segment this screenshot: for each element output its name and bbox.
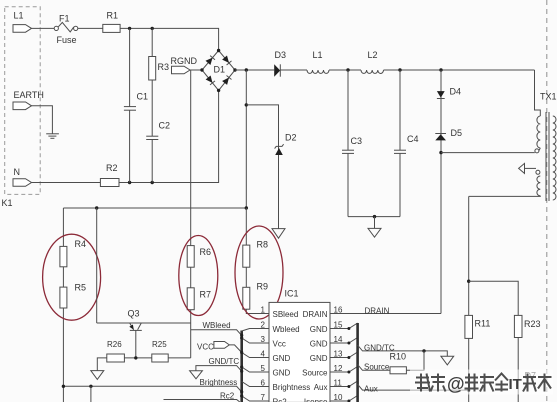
connector pin L1 (13, 25, 32, 33)
svg-text:Aux: Aux (364, 385, 378, 394)
svg-text:C3: C3 (351, 136, 363, 146)
wire C3 bottom (347, 153, 349, 216)
ground (open triangle, GND/TC right) (441, 356, 454, 365)
svg-text:Vcc: Vcc (273, 339, 286, 348)
node junction top wire / R3 (151, 27, 154, 30)
wire ground stub (374, 217, 376, 229)
wire GND/TC net (right) (358, 345, 448, 356)
resistor R2 (100, 179, 119, 187)
wire C2 bottom (151, 140, 153, 183)
svg-text:DRAIN: DRAIN (365, 307, 390, 316)
svg-text:TX1: TX1 (540, 92, 557, 102)
node junction rail / D4 column (439, 68, 442, 71)
wire R26 to R25 (124, 357, 151, 359)
svg-text:D3: D3 (275, 50, 287, 60)
svg-text:VCC: VCC (197, 343, 214, 352)
wire C1 bottom (129, 110, 131, 182)
wire L2 to transformer (384, 69, 535, 71)
capacitor C3 (342, 150, 354, 153)
wire R26 to ground (97, 358, 107, 371)
node arrow (off-sheet, D2 cathode return) (272, 229, 285, 239)
connector pin VCC (214, 342, 229, 349)
svg-text:GND: GND (273, 368, 291, 377)
svg-text:GND/TC: GND/TC (209, 357, 240, 366)
wire bus tap to pin 4 (242, 353, 269, 358)
svg-text:3: 3 (261, 335, 266, 344)
node junction Q3 base stem (134, 356, 137, 359)
wire pin 14 stub (330, 338, 358, 344)
node junction D5 / transformer primary return (439, 151, 442, 154)
wire fuse to R1 (78, 27, 103, 29)
wire WBleed net (191, 330, 242, 336)
wire C4 bottom (399, 153, 401, 216)
resistor R8 (243, 245, 250, 267)
svg-text:GND: GND (310, 339, 328, 348)
wire R7 down through WBleed to R25 corner (190, 310, 192, 358)
resistor R3 (149, 57, 156, 81)
wire RGND column down to lower rail (190, 70, 192, 246)
svg-text:Brightness: Brightness (200, 378, 238, 387)
wire left bus (thick) (240, 331, 243, 402)
ground (open triangle) (368, 228, 381, 237)
svg-text:R2: R2 (106, 163, 118, 173)
svg-text:Brightness: Brightness (273, 383, 311, 392)
node junction rail / R8 column (245, 206, 248, 209)
wire EARTH to ground (32, 106, 53, 134)
wire aux arrow line (525, 167, 537, 169)
resistor R10 (390, 367, 406, 374)
wire aux winding bottom to secondary column (469, 195, 541, 198)
wire pin 12 stub (330, 367, 358, 373)
wire off-sheet stub (90, 386, 92, 402)
wire to zener D2 (246, 105, 278, 229)
svg-text:C4: C4 (407, 134, 419, 144)
wire primary return to transformer (441, 152, 535, 154)
capacitor C1 (124, 107, 136, 111)
node junction D2 branch (245, 103, 248, 106)
capacitor C4 (394, 150, 406, 153)
ground (open triangle, R26) (91, 371, 104, 380)
wire L1 to L2 (329, 69, 361, 71)
resistor R25 (152, 354, 168, 362)
connector pin RGND (172, 66, 191, 74)
svg-text:GND: GND (310, 354, 328, 363)
transistor Q3 (128, 309, 142, 358)
wire R3 to C2 (151, 80, 153, 136)
wire R9 to IC pin 1 (246, 309, 269, 313)
resistor R7 (187, 288, 194, 310)
resistor R23 (514, 315, 522, 337)
wire secondary column down to R11 (468, 196, 470, 315)
highlight ellipse around R4/R5 (43, 234, 101, 320)
svg-text:C2: C2 (159, 121, 171, 131)
svg-text:7: 7 (261, 393, 266, 402)
svg-text:R23: R23 (524, 319, 541, 329)
ground (earth symbol) (46, 134, 59, 139)
wire Rc2 net (164, 400, 240, 402)
svg-text:D4: D4 (450, 87, 462, 97)
wire R4 to R5 (62, 267, 64, 287)
svg-text:D1: D1 (214, 65, 226, 75)
wire pin 10 stub (330, 396, 358, 402)
connector pin EARTH (13, 102, 32, 110)
node junction rail / C3 (346, 68, 349, 71)
wire Source net (358, 365, 390, 371)
capacitor C2 (146, 136, 158, 139)
wire branch to R23 (469, 281, 519, 315)
node junction top wire / C1 (128, 27, 131, 30)
svg-text:C1: C1 (137, 92, 149, 102)
svg-text:D5: D5 (451, 128, 463, 138)
svg-text:R9: R9 (257, 282, 269, 292)
wire bus tap to pin 2 (242, 329, 269, 332)
wire bus tap to pin 6 (242, 382, 269, 387)
wire Q3 column (96, 208, 98, 323)
svg-text:Wbleed: Wbleed (273, 325, 300, 334)
highlight ellipse around R6/R7 (179, 236, 218, 316)
wire R10 to GND/TC junction (406, 351, 424, 370)
watermark 头条@卧龙会IT技术 (drawn strokes) (410, 370, 553, 395)
diode D3 (274, 50, 286, 77)
svg-text:Rc2: Rc2 (220, 392, 235, 401)
svg-text:6: 6 (261, 379, 266, 388)
wire D4/D5 column (rail to DRAIN) (440, 70, 442, 314)
svg-text:R1: R1 (107, 11, 119, 21)
wire C1 top (129, 28, 131, 106)
svg-text:EARTH: EARTH (14, 90, 44, 100)
wire C3 column (347, 70, 349, 150)
wire bus tap to pin 7 (242, 396, 269, 401)
svg-text:N: N (14, 167, 21, 177)
bridge rectifier D1 (200, 49, 236, 92)
svg-text:IC1: IC1 (285, 289, 299, 299)
svg-text:Source: Source (364, 363, 390, 372)
svg-text:SBleed: SBleed (273, 310, 299, 319)
wire R6 to R7 (190, 267, 192, 288)
svg-text:Fuse: Fuse (57, 35, 77, 45)
highlight ellipse around R8/R9 (235, 226, 283, 319)
wire R1 to bridge top (120, 28, 219, 50)
svg-text:GND: GND (273, 354, 291, 363)
svg-text:Rc2: Rc2 (273, 397, 288, 402)
svg-text:L1: L1 (313, 50, 323, 60)
op-amp U1 : IC1 controller box (269, 302, 330, 402)
wire rail into transformer primary top (535, 70, 541, 116)
wire D2 column (bridge rail down to lower rail) (245, 70, 247, 208)
wire GND/TC net (left) (196, 366, 242, 372)
wire lower distribution rail (63, 207, 246, 209)
wire bus tap to pin 5 (242, 367, 269, 372)
node junction left bus / WBleed (240, 334, 243, 337)
wire pin 15 stub (330, 323, 358, 329)
ground (open triangle, GND/TC left) (190, 371, 203, 379)
connector K1 dashed box (5, 7, 41, 195)
wire R8 column top (245, 208, 247, 245)
transformer TX1 (535, 92, 557, 202)
svg-text:R11: R11 (475, 319, 491, 329)
svg-text:IT: IT (509, 376, 522, 393)
wire pin 11 stub (330, 381, 358, 387)
resistor R6 (187, 246, 194, 268)
wire bus tap to pin 3 (242, 338, 269, 343)
resistor R5 (60, 287, 67, 308)
wire N to R2 (32, 182, 101, 184)
svg-text:DRAIN: DRAIN (303, 310, 328, 319)
svg-text:F1: F1 (59, 14, 70, 24)
resistor R9 (243, 287, 250, 309)
svg-text:R10: R10 (390, 352, 407, 362)
node junction rail / C4 (398, 68, 401, 71)
svg-text:K1: K1 (2, 198, 13, 208)
inductor L1 (307, 70, 329, 73)
svg-text:Q3: Q3 (128, 309, 140, 319)
inductor L2 (361, 70, 384, 73)
svg-text:R4: R4 (75, 239, 87, 249)
fuse F1 (54, 14, 78, 46)
node junction N rail / C1 (128, 181, 131, 184)
node junction bottom rail / ground (373, 215, 376, 218)
wire VCC to bus (229, 345, 241, 353)
svg-text:Isense: Isense (304, 397, 328, 402)
svg-text:4: 4 (261, 350, 266, 359)
resistor R26 (107, 354, 125, 362)
node junction left bus / Brightness (240, 390, 243, 393)
wire right bus (thick) (356, 323, 359, 402)
wire DRAIN net (pin 16) (330, 313, 441, 315)
wire D3 to L1 (280, 69, 307, 71)
node junction secondary column / R23 branch (467, 280, 470, 283)
node junction left bus / pin taps (240, 336, 243, 339)
svg-text:RGND: RGND (171, 56, 198, 66)
svg-text:R26: R26 (107, 340, 122, 349)
diode D4 (437, 87, 461, 99)
node junction main rail / D2 column (245, 68, 248, 71)
svg-text:1: 1 (261, 306, 266, 315)
wire Aux net (358, 384, 469, 390)
svg-text:R25: R25 (152, 340, 167, 349)
wire R4/R5 column top (62, 208, 64, 246)
wire below R11 (468, 338, 470, 402)
wire R3 top (151, 28, 153, 56)
svg-text:D2: D2 (285, 133, 297, 143)
node junction N rail / C2 (151, 181, 154, 184)
wire bridge right vertex to D3 (235, 69, 274, 71)
wire RGND to bridge left vertex (190, 69, 202, 71)
diode D5 (435, 128, 462, 140)
node junction left bus / GND-TC (240, 370, 243, 373)
zener diode D2 (275, 133, 297, 156)
wire below R23 (517, 338, 519, 402)
wire R5 down to brightness rail and off-sheet (62, 308, 64, 402)
node junction left bus / VCC (240, 351, 243, 354)
svg-text:L2: L2 (368, 50, 378, 60)
resistor R11 (465, 315, 473, 338)
svg-text:WBleed: WBleed (203, 321, 231, 330)
wire Q3 collector rail (97, 322, 191, 324)
node junction GND/TC / R10 (422, 349, 425, 352)
svg-text:GND: GND (310, 325, 328, 334)
svg-text:R7: R7 (200, 290, 212, 300)
svg-text:Aux: Aux (314, 383, 328, 392)
svg-text:L1: L1 (14, 11, 24, 21)
node arrow (aux winding tap, open arrowhead) (519, 163, 525, 173)
wire C3/C4 bottom rail (348, 216, 400, 218)
node junction Aux / secondary column (467, 388, 470, 391)
svg-text:Source: Source (302, 368, 328, 377)
svg-text:R3: R3 (158, 62, 170, 72)
node junction rail / R4 column (corner) (95, 206, 98, 209)
wire L1 to fuse (32, 27, 55, 29)
svg-text:R6: R6 (200, 247, 212, 257)
wire R2 to bridge bottom (119, 90, 219, 182)
svg-text:R5: R5 (75, 283, 87, 293)
wire C4 column (399, 70, 401, 150)
node junction brightness rail / off-sheet stub (89, 385, 92, 388)
sheet border (right, dashed) (546, 0, 548, 402)
svg-text:5: 5 (261, 364, 266, 373)
wire Brightness rail (63, 386, 241, 392)
wire pin 13 stub (330, 352, 358, 358)
node junction brightness rail / R5 column (62, 385, 65, 388)
svg-text:R8: R8 (257, 240, 269, 250)
svg-text:@: @ (447, 374, 465, 394)
svg-text:2: 2 (261, 321, 266, 330)
wire R25 right up to WBleed column (168, 357, 191, 359)
wire R8 to R9 (245, 267, 247, 287)
connector pin N (13, 179, 32, 187)
resistor R4 (60, 246, 67, 266)
resistor R1 (103, 24, 120, 32)
